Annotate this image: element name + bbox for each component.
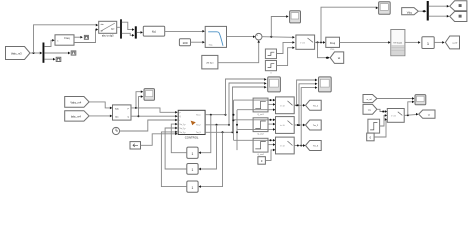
svg-text:Tm_1_p: Tm_1_p — [180, 124, 186, 126]
svg-text:Tm_1: Tm_1 — [196, 115, 200, 117]
step source Q_on1 — [253, 98, 268, 116]
scope Scope1 — [290, 11, 301, 23]
terminator T2 — [71, 51, 76, 55]
svg-text:Q_on4: Q_on4 — [257, 154, 264, 156]
svg-text:in: in — [57, 41, 58, 43]
wire row feeder v2 — [236, 110, 238, 150]
outport Tm_3 — [306, 141, 322, 151]
wire row feeder v1 — [233, 100, 235, 140]
wire step B to switch in3 — [277, 46, 295, 65]
outport wr — [419, 110, 435, 118]
gain block VT Gain — [391, 30, 405, 56]
svg-text:P: P — [180, 112, 181, 114]
constant 0 row3 — [258, 157, 266, 165]
svg-text:2/3 fact: 2/3 fact — [206, 61, 214, 64]
outport Tm_2 — [306, 120, 322, 130]
wire switch out to outport Tm_2 — [294, 124, 305, 127]
svg-text:Vdq: Vdq — [407, 10, 412, 14]
constant 2/3 fact — [202, 55, 218, 69]
filter block (lowpass) — [205, 26, 226, 47]
block Fcn f(u) — [143, 26, 164, 36]
step source A — [265, 49, 276, 59]
svg-text:freq: freq — [209, 45, 212, 47]
subsystem Freq generator — [55, 35, 74, 45]
terminator T3 — [56, 57, 61, 61]
switch SW row1 — [276, 97, 295, 114]
sum junction S1 — [255, 33, 262, 40]
wire D3 to goto Vq — [429, 15, 449, 18]
wire bundle v1 to scopeA — [226, 78, 267, 115]
wire step4 to switch4 in2 — [380, 114, 388, 126]
wire D2 out1 to mux — [122, 22, 135, 31]
svg-text:1: 1 — [192, 152, 194, 156]
wire Q to scope3 — [131, 95, 143, 117]
svg-text:t < 0: t < 0 — [391, 115, 396, 118]
svg-text:Q_on1: Q_on1 — [257, 114, 264, 116]
svg-text:Tm_3: Tm_3 — [313, 146, 319, 148]
outport Tm_1 — [306, 100, 322, 110]
switch SW1 — [296, 35, 315, 49]
svg-text:Iabc: Iabc — [115, 116, 119, 118]
wire Freq out1 to terminator T1 — [74, 36, 83, 39]
wire Vabc_m4 to PQ block — [89, 102, 112, 109]
wire loop3 down — [199, 132, 223, 188]
inport Vabc_m3 — [6, 47, 31, 60]
wire D3 to goto Vd — [429, 5, 449, 8]
svg-text:Tm_3_p: Tm_3_p — [180, 132, 186, 134]
svg-text:t < 0: t < 0 — [280, 124, 285, 127]
wire feeder to switch in1 row3 — [234, 139, 276, 142]
svg-text:VT Gain1: VT Gain1 — [393, 43, 403, 45]
goto tag wt — [330, 52, 344, 64]
wire Iabc_m4 to PQ block — [89, 115, 112, 118]
switch SW row3 — [276, 137, 295, 154]
demux D2 — [120, 19, 122, 38]
wire P to control in1 — [136, 108, 178, 114]
clock — [112, 127, 119, 134]
svg-text:1: 1 — [192, 168, 194, 172]
svg-text:u_ref: u_ref — [452, 42, 457, 45]
wire VT gain to unit block — [405, 41, 421, 44]
wire step Q_on4 to switch — [268, 143, 275, 146]
wire loop1 down — [199, 115, 211, 154]
wire Vabc_m3 to demux — [30, 52, 42, 55]
svg-text:Vabc_m4: Vabc_m4 — [70, 100, 81, 104]
svg-text:t < 0: t < 0 — [280, 105, 285, 108]
wire tap up to scopeB row2 — [299, 82, 317, 125]
wire sum out to switch — [262, 36, 295, 39]
svg-text:Vabc_m3: Vabc_m3 — [11, 52, 22, 56]
constant 100 — [179, 39, 190, 46]
svg-text:CONTROL: CONTROL — [185, 136, 199, 140]
wire Freq wt out to abc-dq0 input2 — [74, 28, 98, 42]
wire fcn to filter — [165, 30, 205, 33]
wire branch up to scope2 — [321, 7, 378, 43]
delay block Z3 — [187, 181, 198, 192]
svg-text:Vabc: Vabc — [115, 108, 119, 110]
wire PLL to VT gain — [340, 41, 391, 44]
wire bundle v2 to scopeA — [229, 82, 267, 125]
wire control out1 — [205, 114, 226, 116]
svg-text:Tm_2: Tm_2 — [313, 125, 319, 127]
scope Scope4 — [415, 95, 426, 105]
wire step Q_on1 to switch — [268, 103, 275, 106]
wire D2 out2 to mux — [122, 33, 135, 36]
inport Vdq — [402, 8, 419, 15]
wire 100 to filter — [191, 41, 205, 44]
step source Q_on4 — [253, 138, 268, 156]
demux D1 — [43, 43, 45, 63]
wire filter to sum — [227, 35, 256, 38]
svg-text:Freq: Freq — [330, 42, 336, 45]
wire sum branch to scope1 — [271, 15, 288, 37]
wire branch to scope4 in2 — [408, 100, 415, 115]
constant 0b — [367, 133, 374, 141]
wire Q to control in2 — [139, 115, 178, 118]
wire wq to switch4 in1 — [377, 109, 387, 113]
wire constant0b to switch4 in3 — [374, 118, 387, 137]
wire loop2 return — [165, 127, 187, 169]
step source B — [265, 61, 276, 75]
svg-text:t < 0: t < 0 — [280, 145, 285, 148]
wire control out3 — [205, 131, 233, 133]
scope Scope2 — [379, 2, 391, 15]
svg-text:wt: wt — [338, 57, 341, 60]
outport w_ref — [445, 36, 459, 49]
wire loop1 return — [171, 123, 187, 153]
wire feeder to switch in3 row1 — [237, 108, 275, 111]
goto tag Vd — [450, 1, 467, 11]
block PQ measurement — [113, 105, 132, 120]
wire tap up to scopeB row3 — [301, 86, 317, 145]
wire w_ref to scope4 — [377, 97, 415, 100]
block abc to dq0 transform U1 — [99, 21, 117, 37]
step source row4 — [368, 119, 380, 133]
wire step Q_on2 to switch — [268, 123, 275, 126]
wire unit to outport w_ref — [434, 41, 444, 44]
from tag wq — [363, 104, 377, 114]
wire node up to abc input — [34, 24, 99, 53]
wire mux to fcn — [137, 31, 143, 34]
wire loop3 return — [161, 131, 186, 187]
subsystem CONTROL — [178, 110, 205, 139]
block PLL Freq — [326, 37, 340, 51]
wire loop2 down — [199, 125, 217, 171]
scope ScopeB — [319, 77, 332, 92]
inport Iabc_m4 — [65, 111, 89, 121]
wire feeder to switch in3 row2 — [237, 128, 275, 131]
block unit 1 — [422, 37, 434, 49]
wire from tag to control — [141, 132, 178, 145]
wire demux to terminator T3 — [44, 58, 55, 61]
wire step A to switch in2 — [277, 41, 295, 53]
svg-text:Tm_2_p: Tm_2_p — [180, 128, 186, 130]
scope Scope3 — [144, 89, 155, 101]
wire feeder to switch in1 row2 — [234, 118, 276, 121]
svg-text:abc: abc — [101, 24, 104, 26]
mux M1 — [135, 26, 137, 38]
wire demux to freq subsystem — [44, 39, 54, 47]
wire demux to terminator T2 — [44, 52, 70, 55]
wire bundle v3 to scopeA — [233, 86, 267, 132]
step source Q_on2 — [253, 118, 268, 136]
wire switch1 out to PLL — [315, 41, 326, 44]
wire feeder to switch in1 row1 — [234, 99, 276, 102]
svg-text:Tm_2: Tm_2 — [196, 125, 200, 127]
from tag block — [130, 142, 141, 149]
wire switch4 out to outport wr — [404, 113, 418, 116]
wire tap up to scopeB row1 — [297, 79, 318, 106]
goto tag Vq — [450, 12, 467, 22]
wire clock to control — [120, 119, 178, 131]
delay block Z1 — [187, 147, 198, 158]
svg-text:f(u): f(u) — [152, 30, 156, 34]
inport Vabc_m4 — [65, 97, 89, 108]
delay block Z2 — [187, 164, 198, 175]
svg-text:w_ref: w_ref — [367, 98, 373, 101]
wire P to scope3 and control — [131, 90, 143, 109]
svg-text:100: 100 — [182, 41, 187, 45]
wire switch out to outport Tm_1 — [294, 104, 305, 107]
wire constant0 to switch3 in3 — [265, 149, 275, 161]
svg-text:Iabc_m4: Iabc_m4 — [71, 114, 82, 118]
demux D3 — [427, 1, 429, 21]
svg-text:Q_on2: Q_on2 — [257, 134, 264, 136]
switch SW4 — [387, 109, 404, 123]
scope ScopeA — [268, 77, 281, 92]
wire branch to wt goto — [318, 42, 330, 59]
wire dq0 out to demux D2 — [117, 26, 120, 28]
svg-text:Tm_1: Tm_1 — [313, 106, 319, 108]
wire Vdq to demux D3 — [418, 10, 426, 13]
svg-text:abc to dq0: abc to dq0 — [102, 35, 114, 38]
wire control out2 — [205, 124, 230, 126]
from tag w_ref — [363, 95, 377, 103]
wire switch out to outport Tm_3 — [294, 144, 305, 147]
svg-text:Tm_3: Tm_3 — [196, 132, 200, 134]
terminator T1 — [84, 35, 88, 39]
wire 2/3 fact to sum — [218, 40, 260, 63]
switch SW row2 — [276, 117, 295, 134]
svg-text:Freq: Freq — [64, 37, 70, 40]
svg-text:wr: wr — [428, 113, 431, 116]
svg-text:1: 1 — [192, 186, 194, 190]
